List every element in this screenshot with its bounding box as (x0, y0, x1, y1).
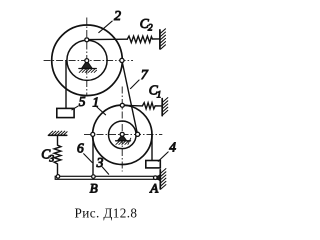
wire rope from pulley 1 rim down to weight 4 (151, 135, 153, 160)
node at top of pulley 1 rim (120, 103, 124, 107)
pulley 1 hub pin node (120, 132, 124, 136)
spring C3 (54, 135, 61, 174)
svg-text:1: 1 (92, 95, 99, 110)
weight 5 block (57, 108, 74, 117)
wire rope 6 from pulley 1 left rim down to bar at B (92, 134, 94, 176)
node on right rim of pulley 2 (120, 58, 124, 62)
svg-text:7: 7 (141, 68, 149, 83)
node joining spring C3 to bar (56, 175, 60, 179)
spring C2 (127, 36, 159, 42)
pulley 2 axle support triangle (82, 61, 93, 69)
ceiling anchor of spring C3 (49, 131, 68, 135)
wire rope 7 from pulley 2 rim down to pulley 1 drum (122, 60, 138, 134)
node B joining rope 6 to bar (92, 175, 96, 179)
pulley 1 outer circle (93, 105, 152, 164)
svg-text:5: 5 (79, 94, 86, 109)
svg-text:6: 6 (77, 141, 84, 156)
bar 3 (55, 176, 157, 179)
svg-text:4: 4 (169, 139, 176, 154)
pin support node A (154, 176, 158, 180)
leader line of label 4 (158, 152, 168, 161)
wall anchor at A (160, 169, 166, 189)
leader line of label 5 (72, 106, 78, 110)
pulley 1 inner circle (109, 121, 137, 149)
leader line of label 3 (102, 167, 109, 174)
svg-text:A: A (149, 180, 158, 195)
pulley 2 inner circle (67, 40, 107, 80)
node at top of pulley 2 inner drum (85, 38, 89, 42)
wire rope from pulley 1 top to spring C1 (124, 104, 142, 107)
leader line of label 7 (131, 80, 140, 89)
pulley 2 axle support ground line (79, 68, 96, 70)
pulley 2 outer circle (52, 25, 123, 96)
weight 4 block (146, 161, 161, 168)
leader line of label 2 (99, 21, 112, 32)
leader line of label 6 (84, 154, 93, 163)
pulley 2 hub pin node (85, 59, 89, 63)
leader line of label 1 (97, 107, 106, 115)
wire rope from pulley 2 hub to spring C2 (89, 38, 128, 40)
pulley 1 axle support triangle (118, 135, 127, 141)
svg-text:B: B (90, 180, 98, 195)
pulley 1 axle support ground line (116, 140, 131, 142)
node on inner drum of pulley 1 where rope 7 ends (136, 132, 140, 136)
pulley 1 axle support hatching (116, 138, 131, 144)
pulley 2 axle support hatching (79, 69, 96, 73)
svg-text:Рис. Д12.8: Рис. Д12.8 (75, 205, 138, 220)
node on left rim of pulley 1 (91, 132, 95, 136)
pulley 2 center lines (44, 18, 133, 96)
pin bracket at A (156, 175, 160, 181)
wall anchor of spring C1 (162, 98, 168, 116)
pulley 1 center lines (84, 87, 162, 172)
svg-text:2: 2 (114, 9, 121, 24)
wire rope from pulley 2 down to weight 5 (65, 61, 67, 108)
wall anchor of spring C2 (160, 29, 166, 49)
spring C1 (142, 103, 161, 109)
